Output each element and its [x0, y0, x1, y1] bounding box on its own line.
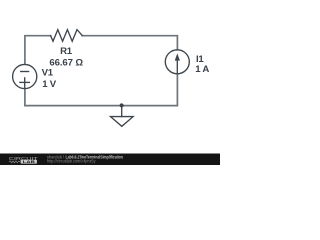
voltage source V1 [13, 64, 37, 88]
svg-text:R1: R1 [60, 46, 73, 57]
wire top-left segment [25, 36, 51, 65]
watermark bar [0, 154, 220, 166]
wire top-right segment [82, 36, 177, 50]
svg-text:V1: V1 [42, 68, 54, 79]
wire bottom-right segment [122, 74, 178, 106]
node junction dot [120, 103, 124, 107]
svg-text:1 A: 1 A [195, 64, 209, 75]
svg-text:66.67 Ω: 66.67 Ω [49, 57, 83, 68]
ground [111, 106, 134, 127]
resistor R1 [51, 30, 83, 42]
CircuitLab logo [9, 156, 38, 164]
svg-text:http://circuitlab.com/c4jmz5y: http://circuitlab.com/c4jmz5y [47, 159, 96, 164]
svg-text:1 V: 1 V [42, 79, 56, 90]
svg-text:LAB: LAB [23, 160, 36, 164]
wire left-bottom segment [25, 89, 122, 106]
current source I1 [165, 50, 189, 74]
